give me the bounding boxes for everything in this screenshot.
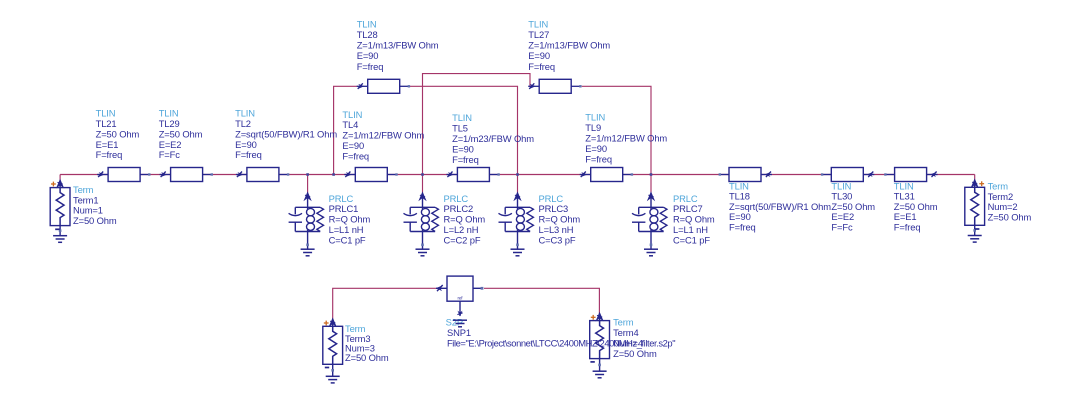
svg-text:TLIN: TLIN (342, 109, 362, 120)
label TL21 parameters (96, 108, 140, 161)
svg-text:E=E1: E=E1 (96, 139, 119, 150)
svg-text:F=freq: F=freq (96, 149, 123, 160)
ground PRLC7 (644, 249, 658, 256)
parallel RLC PRLC3 (499, 193, 534, 249)
svg-text:TL27: TL27 (528, 29, 549, 40)
svg-text:F=freq: F=freq (528, 61, 555, 72)
wire SNP1 to Term4 (484, 288, 599, 315)
label Term4 parameters (613, 317, 657, 359)
plus mark Term3 (324, 321, 329, 326)
transmission line TL2 (236, 168, 289, 182)
port Term2 (965, 180, 985, 225)
node TL28 tap (332, 173, 335, 176)
label TL5 parameters (452, 112, 534, 165)
svg-text:C=C2 pF: C=C2 pF (444, 234, 481, 245)
transmission line TL31 (884, 168, 937, 182)
svg-text:File="E:\Project\sonnet\LTCC\2: File="E:\Project\sonnet\LTCC\2400MHZ\240… (447, 337, 675, 348)
label TL9 parameters (585, 112, 667, 165)
wire TL28 input riser (334, 86, 358, 174)
svg-text:Term1: Term1 (73, 194, 98, 205)
label TL27 parameters (528, 18, 610, 71)
wire Term2 ground stem (974, 225, 976, 235)
pin arrow SNP1 ref (457, 311, 462, 317)
label PRLC1 parameters (329, 193, 371, 246)
svg-text:PRLC: PRLC (329, 193, 354, 204)
svg-text:PRLC1: PRLC1 (329, 203, 359, 214)
svg-text:TLIN: TLIN (235, 108, 255, 119)
svg-text:Term4: Term4 (613, 327, 638, 338)
svg-text:R=Q Ohm: R=Q Ohm (539, 214, 581, 225)
label TL31 parameters (894, 180, 938, 232)
svg-text:F=Fc: F=Fc (159, 149, 181, 160)
svg-text:F=freq: F=freq (894, 222, 921, 233)
svg-text:Z=1/m13/FBW Ohm: Z=1/m13/FBW Ohm (528, 40, 610, 51)
svg-text:PRLC: PRLC (444, 193, 469, 204)
svg-text:Term: Term (613, 317, 634, 328)
svg-text:ref: ref (458, 296, 464, 301)
label TL18 parameters (729, 180, 831, 232)
port Term1 (50, 181, 70, 226)
svg-text:E=90: E=90 (452, 143, 474, 154)
label TL2 parameters (235, 108, 337, 161)
wire Term3 ground stem (332, 364, 334, 376)
svg-text:L=L1 nH: L=L1 nH (329, 224, 364, 235)
parallel RLC PRLC2 (404, 193, 439, 249)
transmission line TL30 (821, 168, 874, 182)
ground SNP1 (453, 320, 467, 327)
minus mark Term4 (590, 361, 594, 363)
plus mark Term1 (51, 182, 56, 187)
transmission line TL28 (357, 79, 410, 93)
svg-text:Term: Term (73, 184, 94, 195)
transmission line TL4 (344, 168, 397, 182)
svg-text:PRLC: PRLC (673, 193, 698, 204)
svg-text:TLIN: TLIN (357, 18, 377, 29)
wire Term1 ground stem (59, 226, 61, 236)
ground PRLC2 (416, 249, 430, 256)
wire PRLC2 stem (422, 175, 424, 197)
wire Term3 to SNP1 (333, 288, 436, 320)
svg-text:Z=50 Ohm: Z=50 Ohm (988, 211, 1032, 222)
transmission line TL18 (719, 168, 772, 182)
svg-text:Z=50 Ohm: Z=50 Ohm (159, 128, 203, 139)
wire PRLC1 stem (307, 175, 309, 197)
label Term2 parameters (988, 181, 1032, 223)
node B junction (421, 173, 424, 176)
svg-text:E=90: E=90 (342, 140, 364, 151)
svg-text:L=L2 nH: L=L2 nH (444, 224, 479, 235)
svg-text:Z=50 Ohm: Z=50 Ohm (613, 348, 657, 359)
svg-text:Z=1/m12/FBW Ohm: Z=1/m12/FBW Ohm (342, 130, 424, 141)
svg-text:TLIN: TLIN (96, 108, 116, 119)
label TL29 parameters (159, 108, 203, 161)
svg-text:F=freq: F=freq (235, 149, 262, 160)
svg-text:TLIN: TLIN (528, 18, 548, 29)
wire TL27 output to node D (582, 86, 651, 174)
label PRLC2 parameters (444, 193, 486, 246)
svg-text:F=freq: F=freq (357, 61, 384, 72)
label TL30 parameters (831, 180, 875, 232)
svg-text:L=L1 nH: L=L1 nH (673, 224, 708, 235)
svg-text:F=freq: F=freq (342, 150, 369, 161)
wire PRLC7 stem (650, 175, 652, 197)
node PRLC1 tap (306, 173, 309, 176)
ground Term4 (593, 371, 607, 378)
wire TL27 input riser from node B (423, 74, 531, 175)
svg-text:TLIN: TLIN (159, 108, 179, 119)
svg-text:Num=1: Num=1 (73, 205, 103, 216)
svg-text:R=Q Ohm: R=Q Ohm (673, 214, 715, 225)
svg-text:F=freq: F=freq (452, 154, 479, 165)
svg-text:E=90: E=90 (235, 139, 257, 150)
svg-text:E=90: E=90 (585, 143, 607, 154)
node D junction (650, 173, 653, 176)
svg-text:C=C3 pF: C=C3 pF (539, 234, 576, 245)
wire Term2 stem (974, 175, 976, 182)
wire main horizontal net (60, 174, 975, 176)
svg-text:C=C1 pF: C=C1 pF (329, 234, 366, 245)
wire Term4 ground stem (599, 359, 601, 372)
port Term4 (590, 314, 610, 359)
svg-text:C=C1 pF: C=C1 pF (673, 234, 710, 245)
plus mark Term2 (979, 181, 984, 186)
label TL4 parameters (342, 109, 424, 162)
wire PRLC3 stem (517, 175, 519, 197)
plus mark Term4 (591, 315, 596, 320)
svg-text:Z=1/m12/FBW Ohm: Z=1/m12/FBW Ohm (585, 133, 667, 144)
ground Term3 (326, 376, 340, 383)
svg-text:Z=1/m13/FBW Ohm: Z=1/m13/FBW Ohm (357, 40, 439, 51)
svg-text:F=Fc: F=Fc (831, 222, 853, 233)
minus mark Term2 (975, 228, 979, 230)
S2P file block SNP1 (436, 276, 484, 316)
label TL28 parameters (357, 18, 439, 71)
ground Term2 (968, 236, 982, 243)
transmission line TL29 (160, 168, 213, 182)
svg-text:TL21: TL21 (96, 118, 117, 129)
svg-text:TLIN: TLIN (452, 112, 472, 123)
svg-text:TL9: TL9 (585, 122, 601, 133)
svg-text:F=freq: F=freq (585, 153, 612, 164)
svg-text:TL2: TL2 (235, 118, 251, 129)
svg-text:R=Q Ohm: R=Q Ohm (329, 214, 371, 225)
label Term1 parameters (73, 184, 117, 226)
label PRLC3 parameters (539, 193, 581, 246)
ground PRLC3 (511, 249, 525, 256)
transmission line TL21 (97, 168, 150, 182)
svg-text:F=freq: F=freq (729, 222, 756, 233)
svg-text:Z=1/m23/FBW Ohm: Z=1/m23/FBW Ohm (452, 133, 534, 144)
minus mark Term3 (325, 367, 329, 369)
port Term3 (323, 319, 343, 364)
minus mark Term1 (55, 228, 59, 230)
transmission line TL27 (528, 79, 581, 93)
svg-text:PRLC: PRLC (539, 193, 564, 204)
parallel RLC PRLC7 (632, 193, 667, 249)
svg-text:R=Q Ohm: R=Q Ohm (444, 214, 486, 225)
transmission line TL9 (580, 168, 633, 182)
svg-text:Z=50 Ohm: Z=50 Ohm (96, 128, 140, 139)
svg-text:Z=50 Ohm: Z=50 Ohm (73, 215, 117, 226)
svg-text:TL4: TL4 (342, 119, 358, 130)
svg-text:TL28: TL28 (357, 29, 378, 40)
node C junction (516, 173, 519, 176)
svg-text:Z=50 Ohm: Z=50 Ohm (345, 352, 389, 363)
label PRLC7 parameters (673, 193, 715, 246)
svg-text:SNP1: SNP1 (447, 327, 471, 338)
svg-text:E=E2: E=E2 (159, 139, 182, 150)
svg-text:PRLC2: PRLC2 (444, 203, 474, 214)
svg-text:TL5: TL5 (452, 123, 468, 134)
ground PRLC1 (301, 249, 315, 256)
wire Term1 stem (59, 175, 61, 182)
svg-text:E=90: E=90 (528, 50, 550, 61)
svg-text:E=90: E=90 (357, 50, 379, 61)
label Term3 parameters (345, 323, 389, 363)
svg-text:TLIN: TLIN (585, 112, 605, 123)
svg-text:S2P: S2P (446, 316, 463, 327)
ground Term1 (53, 236, 67, 243)
svg-text:PRLC7: PRLC7 (673, 203, 703, 214)
transmission line TL5 (446, 168, 499, 182)
svg-text:TL29: TL29 (159, 118, 180, 129)
parallel RLC PRLC1 (289, 193, 324, 249)
svg-text:PRLC3: PRLC3 (539, 203, 569, 214)
svg-text:L=L3 nH: L=L3 nH (539, 224, 574, 235)
wire TL28 output to node C (409, 86, 517, 174)
svg-text:Z=sqrt(50/FBW)/R1 Ohm: Z=sqrt(50/FBW)/R1 Ohm (235, 128, 337, 139)
